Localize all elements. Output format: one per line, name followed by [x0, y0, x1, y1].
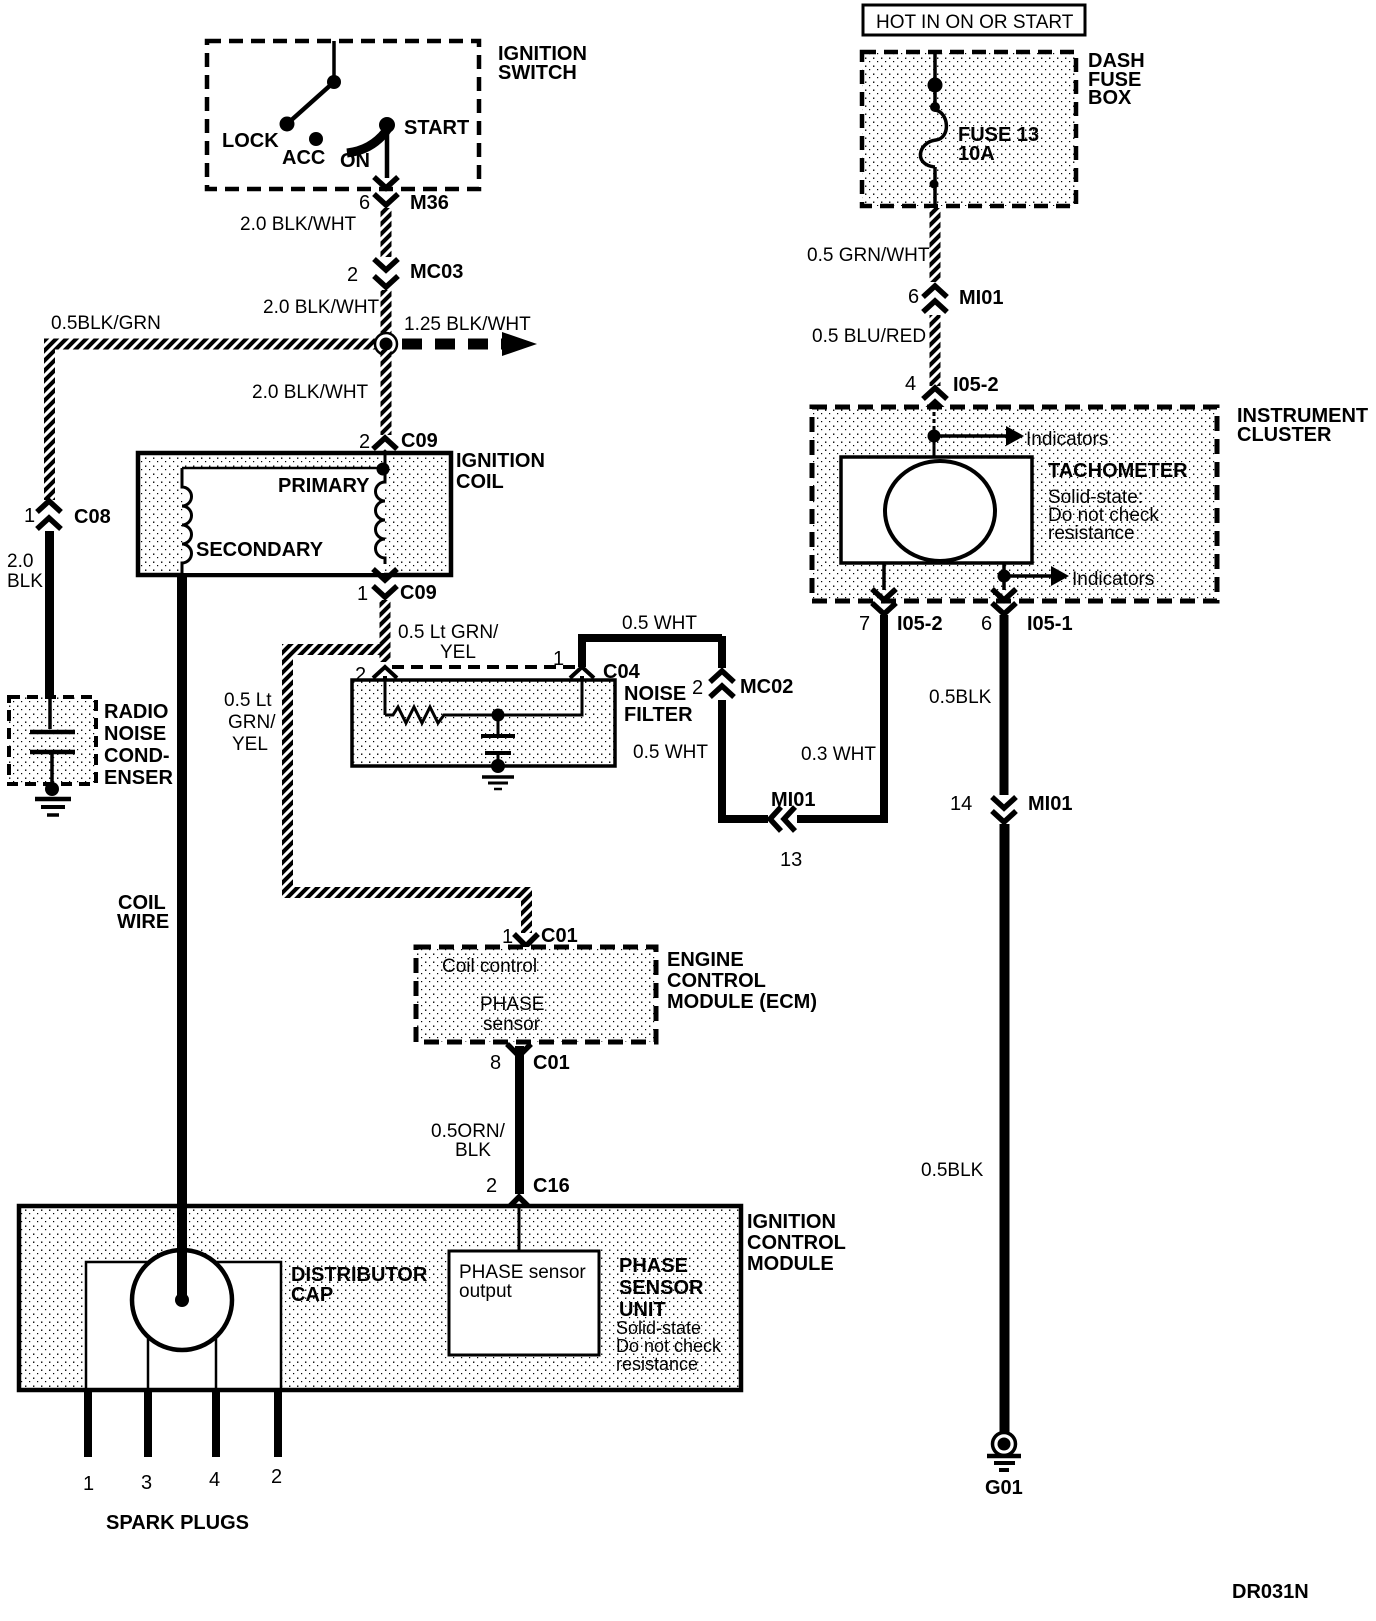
svg-text:RADIO: RADIO: [104, 701, 168, 723]
svg-text:1: 1: [357, 583, 368, 605]
ground G01: [987, 1433, 1021, 1471]
svg-text:1: 1: [24, 505, 35, 527]
svg-text:ENGINE: ENGINE: [667, 949, 744, 971]
svg-text:SWITCH: SWITCH: [498, 62, 577, 84]
svg-text:0.5BLK: 0.5BLK: [921, 1160, 984, 1181]
PHASE SENSOR UNIT label: [616, 1255, 722, 1374]
node dot at box bottom: [491, 759, 505, 773]
LOCK contact dot: [280, 117, 295, 132]
connector MI01 chevrons: [770, 807, 795, 831]
svg-text:BOX: BOX: [1088, 87, 1132, 109]
2.0 BLK label: [7, 551, 43, 592]
svg-text:DR031N: DR031N: [1232, 1581, 1309, 1603]
svg-text:FILTER: FILTER: [624, 704, 693, 726]
connector MI01 chevrons: [923, 286, 947, 312]
wire hatched branch bottom: [282, 887, 532, 898]
svg-text:3: 3: [141, 1472, 152, 1494]
ignition control module box: [19, 1206, 741, 1390]
radio noise condenser box: [9, 697, 96, 784]
svg-text:0.5 WHT: 0.5 WHT: [622, 613, 697, 634]
wire down to MC02: [718, 636, 726, 668]
connector C01 chevron: [514, 934, 538, 946]
connector I05-2 chevrons: [923, 388, 947, 413]
svg-text:ACC: ACC: [282, 147, 325, 169]
svg-text:MI01: MI01: [771, 789, 815, 811]
svg-text:2: 2: [486, 1175, 497, 1197]
tachometer box: [841, 457, 1032, 563]
tach left pin lead: [882, 563, 886, 590]
svg-text:PHASE sensor: PHASE sensor: [459, 1262, 586, 1283]
START contact dot: [379, 117, 395, 133]
svg-text:GRN/: GRN/: [228, 712, 276, 733]
instrument cluster label: [1237, 405, 1368, 446]
svg-text:resistance: resistance: [1048, 523, 1135, 544]
svg-text:0.5BLK: 0.5BLK: [929, 687, 992, 708]
svg-text:C16: C16: [533, 1175, 570, 1197]
COIL WIRE label: [117, 892, 169, 933]
phase sensor output label: [459, 1262, 586, 1302]
DISTRIBUTOR CAP label: [291, 1264, 428, 1306]
svg-text:0.5ORN/: 0.5ORN/: [431, 1121, 506, 1142]
svg-text:14: 14: [950, 793, 972, 815]
coil wire inside module: [177, 1206, 187, 1300]
connector MC03 chevrons: [374, 259, 398, 287]
svg-text:NOISE: NOISE: [624, 683, 686, 705]
svg-text:DISTRIBUTOR: DISTRIBUTOR: [291, 1264, 428, 1286]
node dot: [928, 430, 941, 443]
svg-text:TACHOMETER: TACHOMETER: [1048, 460, 1188, 482]
wire 0.3 WHT riser up to cluster: [880, 615, 888, 823]
wire START to connector M36: [385, 125, 390, 178]
node dot small: [930, 102, 940, 112]
node dot: [998, 570, 1011, 583]
connector C04 dashed face line: [392, 665, 576, 669]
svg-text:IGNITION: IGNITION: [747, 1211, 836, 1233]
ECM label: [667, 949, 817, 1013]
0.5 Lt GRN/YEL label: [224, 690, 276, 755]
spark plug wire 4: [212, 1390, 220, 1457]
rotor contact lines: [147, 1337, 150, 1389]
coil wire thick to distributor: [177, 575, 187, 1208]
connector I05-2 pin7 chevrons: [872, 589, 896, 614]
svg-text:2.0 BLK/WHT: 2.0 BLK/WHT: [240, 214, 357, 235]
svg-text:BLK: BLK: [7, 571, 43, 592]
connector M36 chevrons: [374, 177, 398, 205]
svg-text:Do not check: Do not check: [616, 1336, 722, 1356]
lead to box bottom: [933, 167, 937, 206]
wire bottom horizontal to MI01: [718, 815, 768, 823]
indicators arrow bottom: [1004, 566, 1154, 590]
svg-text:sensor: sensor: [483, 1014, 541, 1035]
svg-text:Indicators: Indicators: [1072, 569, 1154, 590]
lead: [933, 85, 937, 104]
svg-text:CAP: CAP: [291, 1284, 333, 1306]
ignition control module label: [747, 1211, 846, 1275]
wire 1.25 BLK/WHT dashed arrow right: [402, 314, 537, 356]
capacitor lead: [497, 715, 500, 735]
node dot: [928, 78, 943, 93]
svg-text:8: 8: [490, 1052, 501, 1074]
svg-text:C09: C09: [401, 430, 438, 452]
svg-text:0.5 Lt: 0.5 Lt: [224, 690, 272, 711]
svg-text:0.5 BLU/RED: 0.5 BLU/RED: [812, 326, 926, 347]
ignition switch box: [207, 41, 479, 189]
svg-text:MC03: MC03: [410, 261, 463, 283]
connector C16 chevron: [507, 1197, 531, 1209]
spark plug numbers: [83, 1466, 282, 1495]
svg-text:COIL: COIL: [456, 471, 504, 493]
lead into cluster: [933, 412, 936, 432]
svg-text:PHASE: PHASE: [480, 994, 544, 1015]
svg-text:13: 13: [780, 849, 802, 871]
TACHOMETER label: [1048, 460, 1188, 544]
svg-text:MI01: MI01: [1028, 793, 1072, 815]
spark plug wire 2: [274, 1390, 282, 1457]
tachometer circle: [885, 461, 995, 561]
svg-text:1.25 BLK/WHT: 1.25 BLK/WHT: [404, 314, 531, 335]
wire C16 into phase sensor box: [518, 1206, 521, 1251]
svg-text:ENSER: ENSER: [104, 767, 173, 789]
svg-text:output: output: [459, 1281, 513, 1302]
svg-text:2: 2: [692, 677, 703, 699]
svg-text:START: START: [404, 117, 469, 139]
capacitor C lead: [48, 697, 52, 729]
svg-text:LOCK: LOCK: [222, 130, 279, 152]
svg-text:2: 2: [347, 264, 358, 286]
coil inner top wire: [182, 467, 385, 470]
svg-text:2.0 BLK/WHT: 2.0 BLK/WHT: [263, 297, 380, 318]
wire 0.5 BLU/RED hatched: [930, 315, 941, 386]
svg-text:C01: C01: [533, 1052, 570, 1074]
coil pin2 inner lead: [384, 452, 387, 469]
svg-text:Solid-state: Solid-state: [616, 1318, 701, 1338]
connector MC02 chevrons: [710, 671, 734, 697]
resistor: [385, 707, 455, 723]
svg-text:SENSOR: SENSOR: [619, 1277, 704, 1299]
svg-text:resistance: resistance: [616, 1354, 698, 1374]
svg-text:6: 6: [908, 286, 919, 308]
wire 2.0 BLK/WHT hatched M36 to MC03: [381, 208, 392, 257]
svg-text:MODULE (ECM): MODULE (ECM): [667, 991, 817, 1013]
svg-text:C04: C04: [603, 661, 641, 683]
svg-text:0.5 Lt GRN/: 0.5 Lt GRN/: [398, 622, 499, 643]
connector C09 pin 1 chevrons: [373, 569, 397, 597]
spark plug wire 1: [84, 1390, 92, 1457]
svg-text:7: 7: [859, 613, 870, 635]
node dot at condenser ground: [45, 782, 59, 796]
svg-text:1: 1: [83, 1473, 94, 1495]
svg-text:I05-2: I05-2: [897, 613, 943, 635]
wire 0.5BLK/GRN hatched horizontal to junction: [44, 339, 386, 350]
svg-text:IGNITION: IGNITION: [456, 450, 545, 472]
0.5 Lt GRN/YEL label: [398, 622, 499, 663]
svg-text:0.5 GRN/WHT: 0.5 GRN/WHT: [807, 245, 930, 266]
wire 0.5BLK/GRN hatched vertical to C08: [44, 344, 55, 500]
capacitor plates: [30, 730, 75, 735]
0.5ORN/BLK label: [431, 1121, 506, 1161]
svg-text:C09: C09: [400, 582, 437, 604]
dash fuse box label: [1088, 50, 1145, 109]
fuse 13 element: [920, 110, 946, 167]
svg-text:PHASE: PHASE: [619, 1255, 688, 1277]
noise filter pin 2 chevron: [373, 667, 397, 681]
svg-text:2.0 BLK/WHT: 2.0 BLK/WHT: [252, 382, 369, 403]
svg-text:0.5BLK/GRN: 0.5BLK/GRN: [51, 313, 161, 334]
svg-text:C01: C01: [541, 925, 578, 947]
svg-text:COND-: COND-: [104, 745, 170, 767]
HOT IN ON OR START box: [863, 5, 1085, 35]
fuse feed lead: [933, 52, 937, 80]
svg-text:2: 2: [271, 1466, 282, 1488]
switch common feed wire: [332, 41, 336, 82]
wire 0.5BLK long to ground: [1000, 824, 1010, 1434]
wire 2.0 BLK/WHT hatched MC03 to junction: [381, 290, 392, 339]
capacitor plates: [481, 734, 515, 738]
svg-text:6: 6: [981, 613, 992, 635]
tach right pin lead: [1002, 563, 1006, 590]
capacitor to ground: [497, 753, 500, 764]
wire 0.5BLK upper: [1000, 615, 1009, 795]
svg-text:YEL: YEL: [440, 642, 476, 663]
svg-text:MC02: MC02: [740, 676, 793, 698]
spark plug wire 3: [144, 1390, 152, 1457]
wire 2.0 BLK solid to condenser: [45, 531, 54, 698]
ground below noise filter: [482, 777, 514, 789]
svg-text:2: 2: [359, 431, 370, 453]
noise filter pin 1 chevron: [570, 667, 594, 681]
connector I05-1 pin6 chevrons: [992, 589, 1016, 614]
svg-text:1: 1: [553, 648, 564, 670]
svg-text:0.5 WHT: 0.5 WHT: [633, 742, 708, 763]
dash fuse box: [862, 52, 1076, 206]
svg-text:0.3 WHT: 0.3 WHT: [801, 744, 876, 765]
wire 0.5 WHT from pin1 up and right: [582, 638, 722, 667]
wire hatched branch left: [282, 644, 386, 655]
condenser label: [104, 701, 173, 789]
svg-text:HOT IN ON OR START: HOT IN ON OR START: [876, 12, 1074, 33]
svg-text:M36: M36: [410, 192, 449, 214]
wire resistor to pin1: [455, 680, 582, 715]
distributor cap inner box: [86, 1262, 281, 1389]
coil wire end dot: [175, 1293, 189, 1307]
instrument cluster box: [812, 407, 1217, 601]
ECM box: [416, 947, 656, 1042]
svg-text:MI01: MI01: [959, 287, 1003, 309]
svg-text:MODULE: MODULE: [747, 1253, 834, 1275]
svg-text:CONTROL: CONTROL: [747, 1232, 846, 1254]
connector C08 chevrons: [37, 501, 61, 529]
ON-START thick arc: [347, 127, 389, 153]
svg-text:4: 4: [209, 1469, 220, 1491]
svg-text:6: 6: [359, 192, 370, 214]
svg-text:2: 2: [355, 664, 366, 686]
primary winding: [376, 469, 385, 564]
wire hatched branch down: [282, 644, 293, 893]
svg-text:CONTROL: CONTROL: [667, 970, 766, 992]
svg-text:SPARK PLUGS: SPARK PLUGS: [106, 1512, 249, 1534]
node dot small: [930, 180, 939, 189]
svg-text:CLUSTER: CLUSTER: [1237, 424, 1332, 446]
noise filter label: [624, 683, 693, 726]
noise filter box: [352, 680, 615, 766]
svg-text:I05-1: I05-1: [1027, 613, 1073, 635]
ignition coil label: [456, 450, 545, 493]
svg-text:10A: 10A: [958, 143, 995, 165]
connector C09 pin 2 chevrons: [373, 438, 397, 464]
node junction ring: [375, 333, 397, 355]
connector C01 pin 8 chevron: [507, 1044, 531, 1056]
svg-text:ON: ON: [340, 150, 370, 172]
svg-text:YEL: YEL: [232, 734, 268, 755]
switch pivot dot: [327, 75, 341, 89]
node dot noise filter: [492, 709, 505, 722]
PHASE sensor label: [480, 994, 544, 1035]
svg-text:SECONDARY: SECONDARY: [196, 539, 324, 561]
wire horizontal MI01 to right riser: [797, 815, 888, 823]
svg-text:4: 4: [905, 373, 916, 395]
wire 0.5 Lt GRN/YEL hatched C09 down: [380, 600, 391, 662]
svg-text:G01: G01: [985, 1477, 1023, 1499]
ground below condenser: [35, 799, 71, 815]
indicators arrow top: [934, 426, 1108, 450]
svg-text:I05-2: I05-2: [953, 374, 999, 396]
wire 0.5 WHT MC02 down: [718, 700, 726, 823]
svg-text:Indicators: Indicators: [1026, 429, 1108, 450]
distributor rotor circle: [132, 1250, 232, 1350]
connector MI01 pin14 chevrons: [992, 797, 1016, 822]
ignition coil box: [138, 453, 451, 575]
switch arm to LOCK: [287, 82, 334, 124]
svg-text:WIRE: WIRE: [117, 911, 169, 933]
svg-text:2.0: 2.0: [7, 551, 33, 572]
svg-text:C08: C08: [74, 506, 111, 528]
wire 0.5 GRN/WHT hatched: [930, 208, 941, 282]
svg-text:PRIMARY: PRIMARY: [278, 475, 370, 497]
wire 2.0 BLK/WHT hatched junction to C09: [381, 350, 392, 435]
wire hatched branch to ECM: [521, 887, 532, 933]
capacitor lower lead: [50, 752, 54, 788]
lead into tachometer: [933, 436, 936, 458]
ACC contact dot: [309, 132, 323, 146]
secondary winding: [182, 468, 192, 575]
noise filter pin2 lead: [384, 680, 387, 715]
node dot primary top: [377, 463, 390, 476]
wire 0.5ORN/BLK: [515, 1046, 524, 1194]
svg-text:Coil control: Coil control: [442, 956, 537, 977]
svg-text:BLK: BLK: [455, 1140, 491, 1161]
phase sensor output box: [449, 1251, 599, 1355]
FUSE 13 10A label: [958, 124, 1039, 165]
svg-text:NOISE: NOISE: [104, 723, 166, 745]
ignition switch label: [498, 43, 587, 84]
